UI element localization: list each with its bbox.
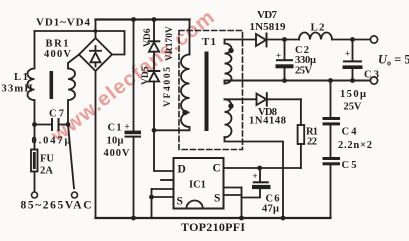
inductor L1 right winding	[68, 69, 75, 125]
svg-text:25V: 25V	[344, 102, 362, 113]
wire primary top drop	[189, 20, 191, 55]
svg-text:BR1: BR1	[46, 39, 69, 50]
node source rail 1	[239, 216, 244, 221]
IC1 box	[174, 158, 224, 209]
svg-text:IC1: IC1	[189, 180, 206, 191]
wire source column right	[241, 188, 243, 219]
diode VD6 TVS	[149, 40, 160, 42]
svg-text:C7: C7	[49, 109, 64, 120]
wire bridge minus down	[95, 71, 97, 218]
capacitor C7	[35, 124, 53, 126]
node C2 bottom	[282, 78, 287, 83]
svg-text:C3: C3	[364, 70, 379, 81]
svg-text:C4: C4	[342, 127, 358, 138]
wire top rail B+	[96, 18, 190, 20]
svg-text:TOP210PFI: TOP210PFI	[181, 220, 245, 234]
node junction clamp top	[152, 17, 157, 22]
svg-text:C: C	[213, 163, 221, 175]
svg-text:D: D	[178, 164, 186, 176]
core L1	[50, 71, 54, 99]
svg-text:S: S	[177, 196, 183, 208]
node C4 top	[328, 78, 333, 83]
svg-text:VD7: VD7	[257, 9, 278, 21]
node drain junction	[152, 128, 157, 133]
svg-text:C1: C1	[108, 123, 122, 134]
bottom rail	[96, 217, 331, 219]
IC S pin wire left	[152, 196, 174, 198]
IC1 notch	[186, 201, 202, 209]
node C7 right	[66, 122, 71, 127]
svg-text:1N4148: 1N4148	[249, 116, 286, 127]
transformer T1 dashed box	[179, 31, 243, 150]
svg-text:1N5819: 1N5819	[250, 21, 287, 33]
capacitor C1	[133, 20, 135, 131]
svg-text:C5: C5	[342, 160, 357, 171]
svg-text:VD6: VD6	[143, 28, 153, 47]
capacitor C6	[259, 168, 261, 181]
svg-text:2A: 2A	[40, 166, 53, 177]
wire apex vertical to bridge +	[95, 20, 97, 39]
capacitor C5	[330, 125, 332, 156]
wire bias top to VD8	[225, 98, 257, 100]
node over-route crossing blob	[94, 29, 98, 33]
capacitor C3	[352, 40, 354, 61]
svg-text:47μ: 47μ	[262, 204, 279, 215]
polarity dot primary	[182, 110, 187, 115]
AC terminal 1	[32, 192, 38, 198]
wire S column to rail	[151, 189, 153, 218]
svg-text:330μ: 330μ	[295, 55, 316, 66]
wire primary bottom to drain node	[154, 127, 190, 130]
svg-text:10μ: 10μ	[107, 136, 124, 147]
node S left	[149, 195, 154, 200]
svg-text:VF4005: VF4005	[163, 67, 173, 107]
T1 secondary winding top	[225, 44, 232, 84]
IC right stub 1	[224, 187, 242, 189]
svg-text:L2: L2	[311, 22, 326, 34]
T1 bias winding	[225, 99, 232, 137]
svg-text:85~265VAC: 85~265VAC	[21, 200, 92, 212]
wire AC right column down	[68, 125, 74, 189]
svg-text:L1: L1	[14, 72, 28, 83]
node junction C1 top	[131, 17, 136, 22]
wire R1 bottom to C pin	[224, 167, 301, 169]
IC right stub 2	[224, 194, 242, 196]
diode VD5 VF4005	[149, 70, 160, 72]
svg-text:VD5: VD5	[141, 66, 151, 85]
mid rail output return	[225, 79, 371, 81]
svg-text:VR170V: VR170V	[165, 26, 175, 61]
node L2 out	[350, 37, 355, 42]
polarity dot secondary	[228, 48, 233, 53]
svg-text:S: S	[214, 193, 220, 205]
IC left stub 2	[152, 188, 174, 190]
fuse FU	[34, 125, 36, 150]
svg-text:+: +	[345, 49, 350, 59]
svg-text:33mH: 33mH	[2, 84, 33, 95]
polarity dot bias	[228, 103, 233, 108]
inductor L1 left winding	[28, 31, 35, 125]
wire secondary top to VD7	[225, 39, 257, 41]
T1 core	[205, 52, 209, 132]
svg-text:+: +	[253, 171, 258, 181]
wire drain to D pin	[154, 130, 174, 171]
svg-text:25V: 25V	[295, 66, 312, 77]
diode VD8	[257, 94, 267, 105]
node C3 bottom	[350, 78, 355, 83]
wire bias bottom return	[225, 137, 284, 218]
svg-text:T1: T1	[202, 36, 216, 48]
resistor R1	[300, 99, 302, 125]
svg-text:Uo = 5V: Uo = 5V	[378, 53, 409, 68]
node after VD7	[282, 37, 287, 42]
wire AC over-route	[35, 31, 125, 55]
svg-text:+: +	[276, 51, 281, 61]
svg-text:150μ: 150μ	[340, 89, 366, 100]
capacitor C2	[284, 40, 286, 60]
capacitor C4	[330, 81, 332, 117]
svg-text:FU: FU	[40, 154, 54, 165]
node C6 top	[257, 166, 262, 171]
output terminal minus	[370, 77, 377, 84]
svg-text:400V: 400V	[44, 49, 71, 60]
T1 primary winding	[181, 55, 190, 128]
clamp column wire	[153, 20, 155, 41]
svg-text:VD1~VD4: VD1~VD4	[36, 17, 91, 29]
inductor L2	[299, 33, 332, 40]
output terminal plus	[370, 36, 377, 43]
IC left stub 1	[161, 179, 174, 181]
node source rail 2	[281, 216, 286, 221]
svg-text:400V: 400V	[104, 148, 130, 159]
svg-text:+: +	[125, 122, 130, 132]
bridge rectifier BR1	[79, 38, 112, 71]
svg-text:0.047μ: 0.047μ	[32, 136, 71, 147]
svg-text:2.2n×2: 2.2n×2	[338, 140, 372, 151]
node C7 left	[32, 122, 37, 127]
diode VD7	[256, 34, 266, 46]
node C1 bottom	[131, 216, 136, 221]
svg-text:22: 22	[307, 137, 317, 148]
wire bridge left AC to L1 right winding	[68, 55, 79, 69]
AC terminal 2	[72, 192, 78, 198]
